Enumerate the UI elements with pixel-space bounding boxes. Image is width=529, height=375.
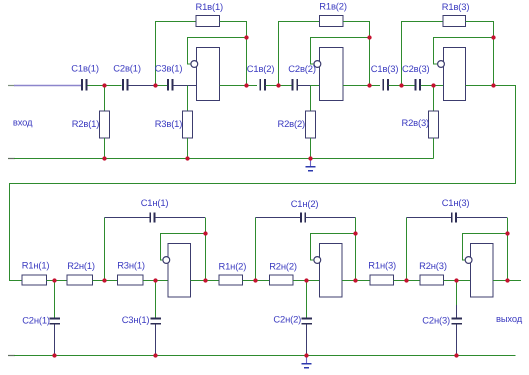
wire R2в(2) to ground rail <box>310 138 312 159</box>
wire U2 output to node D2 <box>343 85 369 87</box>
ground symbol top <box>305 160 315 172</box>
node E2 junction <box>253 278 257 282</box>
svg-text:C1в(1): C1в(1) <box>71 63 99 74</box>
label C2в(1) <box>113 63 141 74</box>
label C2н(2) <box>273 314 301 325</box>
junction inner feedback U2 <box>367 35 371 39</box>
label C2н(1) <box>22 314 50 325</box>
wire C1в(1) to node A1 <box>87 85 121 87</box>
label R2в(1) <box>72 118 100 129</box>
svg-text:C3н(1): C3н(1) <box>122 314 150 325</box>
resistor R1н(3) <box>370 275 393 285</box>
inner feedback wire to U3 bubble <box>434 38 494 64</box>
junction inner feedback U4 <box>203 231 207 235</box>
ground rail top <box>8 158 434 160</box>
feedback wire C1н(1) right segment <box>155 217 205 219</box>
wire node D2 to C1в(3) <box>370 85 381 87</box>
svg-text:R1в(2): R1в(2) <box>319 0 347 11</box>
node C2н(3) junction <box>454 278 458 282</box>
resistor R3в(1) <box>183 111 193 138</box>
node G2 output junction <box>353 278 357 282</box>
op-amp U5 <box>314 244 342 297</box>
feedback wire node E3 up to C1н(3) <box>406 218 408 281</box>
resistor R2н(2) <box>270 275 294 285</box>
svg-text:R1н(3): R1н(3) <box>368 260 396 271</box>
feedback wire node A2 up over R1в(2) <box>279 22 320 86</box>
wire C2н(2) to bottom rail <box>306 325 308 356</box>
wire U5 output to node G2 <box>342 280 370 282</box>
label C3н(1) <box>122 314 150 325</box>
junction inner feedback U5 <box>353 231 357 235</box>
wire node to R2в(2) <box>310 86 312 112</box>
capacitor C2в(3) <box>415 79 421 91</box>
node A3 junction <box>399 83 403 87</box>
wire R3в(1) to ground rail <box>187 138 189 159</box>
label R1в(1) <box>196 1 224 12</box>
node G1 output junction <box>203 278 207 282</box>
feedback wire node F1 up to C1н(1) <box>104 218 106 281</box>
label R3в(1) <box>155 118 183 129</box>
junction R3в(1) on rail <box>185 156 189 160</box>
svg-text:R3в(1): R3в(1) <box>155 118 183 129</box>
capacitor C2н(2) <box>301 317 312 324</box>
label выход <box>496 313 523 324</box>
label R1в(3) <box>442 1 470 12</box>
wire C2н(1) to bottom rail <box>54 325 56 356</box>
wire node A3 to C2в(3) <box>402 85 415 87</box>
svg-text:R2в(3): R2в(3) <box>402 117 430 128</box>
resistor R2в(2) <box>306 111 316 138</box>
svg-text:C2в(1): C2в(1) <box>113 63 141 74</box>
feedback wire node E2 up to C1н(2) <box>255 218 257 281</box>
feedback wire down to output node G3 <box>507 218 509 281</box>
ground symbol bottom <box>301 357 311 369</box>
label вход <box>13 117 33 128</box>
svg-text:вход: вход <box>13 117 33 128</box>
label C2н(3) <box>422 314 450 325</box>
label C1н(2) <box>291 198 319 209</box>
wire input line <box>8 85 81 87</box>
resistor R1в(1) <box>196 16 220 27</box>
capacitor C1в(1) <box>81 79 87 91</box>
wire node B1 to C3в(1) <box>156 85 167 87</box>
wire U6 output <box>493 280 521 282</box>
feedback wire C1н(3) left segment <box>407 217 451 219</box>
node A1 junction <box>102 83 106 87</box>
wire C2н(3) to bottom rail <box>456 325 458 356</box>
wire C2в(2) to amp U2 input <box>298 85 311 87</box>
label C1н(1) <box>141 197 169 208</box>
capacitor C2н(1) <box>49 317 60 324</box>
node G3 output junction <box>505 278 509 282</box>
label R1н(3) <box>368 260 396 271</box>
node E3 junction <box>404 278 408 282</box>
svg-text:C2н(2): C2н(2) <box>273 314 301 325</box>
wire C1в(3) to node A3 <box>389 85 402 87</box>
svg-text:R2н(1): R2н(1) <box>67 260 95 271</box>
wire U3 output to node D3 <box>465 85 493 87</box>
wire node down to R2в(3) <box>433 86 435 112</box>
svg-text:R1в(3): R1в(3) <box>442 1 470 12</box>
capacitor C1в(3) <box>382 79 388 91</box>
capacitor C2н(3) <box>451 317 462 324</box>
wire C3н(1) to bottom rail <box>155 325 157 356</box>
ground rail bottom <box>8 355 516 357</box>
wire U4 output to node G1 <box>191 280 219 282</box>
svg-text:R3н(1): R3н(1) <box>117 260 145 271</box>
svg-text:C2н(1): C2н(1) <box>22 314 50 325</box>
op-amp U6 <box>465 244 493 297</box>
feedback wire C1н(1) left segment <box>105 217 150 219</box>
inner feedback wire to U6 bubble <box>463 234 508 261</box>
svg-text:R2н(2): R2н(2) <box>269 260 297 271</box>
inner feedback wire to U1 bubble <box>188 38 247 64</box>
feedback wire down to output node G2 <box>355 218 357 281</box>
junction C2н(1) on rail <box>52 353 56 357</box>
label C1в(3) <box>371 63 399 74</box>
wire node A2 to C2в(2) <box>279 85 292 87</box>
node F1 junction <box>102 278 106 282</box>
label C1в(2) <box>247 63 275 74</box>
label R1в(2) <box>319 0 347 11</box>
wire C2в(1) to node B1 <box>128 85 155 87</box>
capacitor C1в(2) <box>259 79 265 91</box>
svg-text:R1н(1): R1н(1) <box>22 260 50 271</box>
junction inner feedback U1 <box>244 35 248 39</box>
label C1н(3) <box>442 197 470 208</box>
resistor R1в(2) <box>320 16 343 27</box>
feedback wire R1в(1) to output node <box>220 22 247 86</box>
svg-text:R2в(1): R2в(1) <box>72 118 100 129</box>
wire C1в(2) to node A2 <box>266 85 279 87</box>
node D3 output junction <box>491 83 495 87</box>
resistor R2н(3) <box>420 275 443 285</box>
label R2н(2) <box>269 260 297 271</box>
inner feedback wire to U2 bubble <box>311 38 370 64</box>
wire R3н(1) to node H1 <box>143 280 168 282</box>
wire node E1 down to C2н(1) <box>54 281 56 318</box>
node D1 output junction <box>244 83 248 87</box>
svg-text:C1н(3): C1н(3) <box>442 197 470 208</box>
op-amp U4 <box>163 244 191 297</box>
capacitor C1н(3) <box>451 212 457 222</box>
junction R2в(1) on rail <box>102 156 106 160</box>
label R2н(1) <box>67 260 95 271</box>
wire C2в(3) to node R2в(3) <box>421 85 434 87</box>
wire node A1 down to R2в(1) <box>104 86 106 112</box>
capacitor C3н(1) <box>150 317 161 324</box>
op-amp U1 <box>191 47 220 100</box>
resistor R1н(1) <box>22 275 47 285</box>
wire R1н(2) to node E2 <box>242 280 269 282</box>
wire into U3 <box>434 85 444 87</box>
capacitor C1н(2) <box>300 212 306 222</box>
resistor R3н(1) <box>118 275 144 285</box>
wire R2н(1) to node F1 <box>93 280 118 282</box>
feedback wire C1н(3) right segment <box>456 217 507 219</box>
capacitor C1н(1) <box>149 212 155 222</box>
label C2в(3) <box>402 63 430 74</box>
node C2н(2) junction <box>304 278 308 282</box>
wire R2в(3) to ground rail end <box>433 138 435 159</box>
wire node D1 to C1в(2) <box>247 85 258 87</box>
op-amp U3 <box>438 47 466 100</box>
svg-text:C1в(3): C1в(3) <box>371 63 399 74</box>
node H1 junction <box>153 278 157 282</box>
svg-text:C1н(2): C1н(2) <box>291 198 319 209</box>
junction inner feedback U3 <box>491 35 495 39</box>
svg-text:C1в(2): C1в(2) <box>247 63 275 74</box>
svg-text:R1в(1): R1в(1) <box>196 1 224 12</box>
node D2 output junction <box>367 83 371 87</box>
feedback wire R1в(2) to output node <box>343 22 370 86</box>
svg-text:выход: выход <box>496 313 523 324</box>
wire node to R3в(1) <box>187 86 189 112</box>
feedback wire C1н(2) left segment <box>256 217 301 219</box>
capacitor C2в(2) <box>292 79 298 91</box>
feedback wire node B1 up over R1в(1) <box>156 22 197 86</box>
capacitor C2в(1) <box>122 79 128 91</box>
svg-text:C2в(3): C2в(3) <box>402 63 430 74</box>
wire R2н(2) to amp U5 input <box>293 280 319 282</box>
wire top output to bottom row input <box>10 86 516 281</box>
wire into U2 <box>311 85 320 87</box>
wire R1н(1) to node E1 <box>47 280 67 282</box>
label C2в(2) <box>288 63 316 74</box>
wire node down to C2н(3) <box>456 281 458 318</box>
wire node down to C2н(2) <box>306 281 308 318</box>
wire U1 output to node D1 <box>220 85 247 87</box>
feedback wire node A3 up over R1в(3) <box>402 22 444 86</box>
svg-text:C1н(1): C1н(1) <box>141 197 169 208</box>
node B1 junction <box>153 83 157 87</box>
label R2в(3) <box>402 117 430 128</box>
svg-text:C2в(2): C2в(2) <box>288 63 316 74</box>
capacitor C3в(1) <box>167 79 173 91</box>
junction R2в(2) on rail <box>308 156 312 160</box>
junction inner feedback U6 <box>505 231 509 235</box>
node R2в(3) junction <box>431 83 435 87</box>
wire R2н(3) to amp U6 input <box>443 280 470 282</box>
wire node H1 down to C3н(1) <box>155 281 157 318</box>
feedback wire C1н(2) right segment <box>306 217 356 219</box>
resistor R2в(3) <box>429 111 439 138</box>
op-amp U2 <box>314 47 343 100</box>
svg-text:R1н(2): R1н(2) <box>219 260 247 271</box>
feedback wire down to output node G1 <box>205 218 207 281</box>
svg-text:C2н(3): C2н(3) <box>422 314 450 325</box>
label R1н(2) <box>219 260 247 271</box>
label R1н(1) <box>22 260 50 271</box>
junction C2н(3) on rail <box>454 353 458 357</box>
resistor R2в(1) <box>100 111 110 138</box>
junction C3н(1) on rail <box>153 353 157 357</box>
label R3н(1) <box>117 260 145 271</box>
svg-text:R2в(2): R2в(2) <box>278 118 306 129</box>
svg-text:C3в(1): C3в(1) <box>155 63 183 74</box>
label R2н(3) <box>419 260 447 271</box>
inner feedback wire to U5 bubble <box>311 234 356 261</box>
node A2 junction <box>276 83 280 87</box>
junction C2н(2) on rail <box>304 353 308 357</box>
label R2в(2) <box>278 118 306 129</box>
resistor R1н(2) <box>219 275 243 285</box>
node E1 junction <box>52 278 56 282</box>
wire R2в(1) to ground rail <box>104 138 106 159</box>
label C1в(1) <box>71 63 99 74</box>
svg-text:R2н(3): R2н(3) <box>419 260 447 271</box>
inner feedback wire to U4 bubble <box>161 234 206 261</box>
feedback wire R1в(3) to output node <box>466 22 494 86</box>
resistor R1в(3) <box>443 16 466 27</box>
wire R1н(3) to node E3 <box>393 280 420 282</box>
label C3в(1) <box>155 63 183 74</box>
resistor R2н(1) <box>67 275 93 285</box>
wire C3в(1) to amp U1 input <box>173 85 196 87</box>
